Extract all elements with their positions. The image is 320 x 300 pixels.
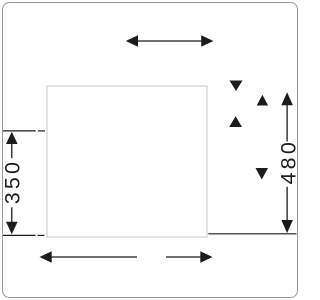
480 dimension line lower segment bbox=[286, 187, 288, 222]
480 dimension down arrowhead bbox=[281, 220, 293, 233]
product outline rectangle bbox=[47, 86, 207, 237]
350 dimension up arrowhead bbox=[6, 132, 18, 144]
480 dimension up arrowhead bbox=[281, 92, 293, 105]
adjuster triangle up (upper-right of cluster) bbox=[257, 95, 268, 106]
350 bottom extension line bbox=[3, 234, 36, 236]
bottom dimension left arrowhead bbox=[40, 251, 52, 263]
adjuster triangle up (lower-left of cluster) bbox=[229, 116, 242, 127]
350 bottom extension dash bbox=[38, 234, 45, 236]
480 bottom extension line bbox=[208, 233, 296, 235]
top dimension left arrowhead bbox=[126, 35, 138, 47]
350 top extension dash bbox=[38, 130, 45, 132]
480 dimension line upper segment bbox=[286, 104, 288, 142]
adjuster triangle down (lower-right of cluster) bbox=[256, 168, 269, 180]
350 dimension line lower segment bbox=[11, 207, 13, 222]
top dimension line bbox=[137, 40, 202, 42]
350 top extension line bbox=[3, 130, 36, 132]
adjuster triangle down (upper-left of cluster) bbox=[230, 81, 243, 92]
top dimension right arrowhead bbox=[201, 35, 213, 47]
svg-text:350: 350 bbox=[0, 159, 24, 204]
bottom dimension line left segment bbox=[51, 256, 138, 258]
svg-text:480: 480 bbox=[276, 139, 300, 184]
350 dimension line upper segment bbox=[11, 143, 13, 158]
bottom dimension right arrowhead bbox=[200, 251, 212, 263]
350 dimension down arrowhead bbox=[6, 222, 18, 234]
bottom dimension line right segment bbox=[166, 256, 202, 258]
